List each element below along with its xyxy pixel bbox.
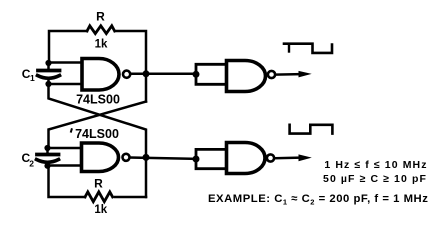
svg-text:1 Hz ≤ f ≤ 10 MHz: 1 Hz ≤ f ≤ 10 MHz <box>324 159 427 171</box>
svg-text:2: 2 <box>29 158 34 168</box>
svg-text:74LS00: 74LS00 <box>76 92 120 106</box>
svg-text:1k: 1k <box>94 204 107 216</box>
svg-text:EXAMPLE: C1 ≈ C2 = 200 pF, f =: EXAMPLE: C1 ≈ C2 = 200 pF, f = 1 MHz <box>208 193 428 207</box>
svg-text:50 µF ≥ C ≥ 10 pF: 50 µF ≥ C ≥ 10 pF <box>323 173 427 185</box>
svg-text:1k: 1k <box>95 39 108 51</box>
svg-text:R: R <box>96 10 105 24</box>
svg-text:R: R <box>94 176 103 190</box>
svg-text:1: 1 <box>30 73 35 83</box>
svg-text:74LS00: 74LS00 <box>75 127 119 141</box>
